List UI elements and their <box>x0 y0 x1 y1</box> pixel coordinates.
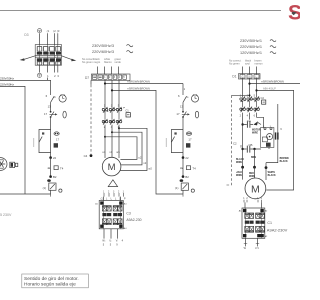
svg-text:A4: A4 <box>124 203 127 206</box>
terminal block D3 <box>35 33 61 72</box>
svg-text:BLACK: BLACK <box>280 160 288 163</box>
row 1 cells <box>102 206 122 211</box>
svg-text:230V/50Hz: 230V/50Hz <box>0 77 14 81</box>
svg-text:2: 2 <box>108 191 110 193</box>
svg-text:v2: v2 <box>143 161 146 165</box>
svg-text:(1): (1) <box>175 186 178 190</box>
svg-text:BLACK: BLACK <box>268 174 276 177</box>
row 3 cells <box>245 226 265 232</box>
svg-text:1: 1 <box>47 74 49 78</box>
PTC bars right of relay <box>275 132 277 139</box>
phase drops <box>243 113 250 167</box>
svg-text:1: 1 <box>103 191 105 193</box>
svg-text:22: 22 <box>53 156 57 160</box>
svg-text:B2: B2 <box>185 175 189 179</box>
svg-text:3: 3 <box>57 74 59 78</box>
svg-text:4: 4 <box>122 240 124 243</box>
wire colour labels above D1 <box>229 58 263 65</box>
svg-text:WIRE: WIRE <box>236 175 242 177</box>
motor terminal dots <box>241 166 244 169</box>
dashed linkage C2 (right) <box>226 94 250 185</box>
contact with actuator (to coil oval) <box>50 111 52 113</box>
svg-text:A4: A4 <box>124 227 127 230</box>
svg-text:2: 2 <box>246 198 248 200</box>
far-left motor stub (cut) <box>0 158 18 171</box>
wire colour labels above D7 <box>82 57 122 64</box>
svg-text:220V/60Hz: 220V/60Hz <box>0 83 14 87</box>
svg-text:T4: T4 <box>60 166 64 170</box>
supply line 1 <box>0 80 51 95</box>
svg-text:17: 17 <box>56 138 60 142</box>
row 1 <box>240 96 260 102</box>
svg-text:BLACK: BLACK <box>236 158 244 161</box>
svg-text:W: W <box>244 247 247 250</box>
plug ticks above connector C3 <box>101 191 126 200</box>
svg-text:M: M <box>108 162 116 173</box>
svg-text:1: 1 <box>104 105 106 108</box>
start relay box <box>261 128 274 148</box>
svg-text:C2: C2 <box>233 142 237 146</box>
row 2 cells dark <box>245 221 249 224</box>
svg-text:W:: W: <box>102 240 105 243</box>
supply line 2 <box>0 86 25 194</box>
row 3 cells <box>102 219 122 225</box>
row 2 overload <box>240 94 260 112</box>
arrow left from block <box>22 56 36 60</box>
svg-text:3: 3 <box>114 77 116 79</box>
leads into D7 from above <box>98 67 119 75</box>
parallel branch <box>171 130 183 144</box>
svg-text:+/BROWN/BROWN: +/BROWN/BROWN <box>127 80 150 84</box>
svg-text:A1: A1 <box>95 203 98 206</box>
svg-text:G: G <box>242 75 244 78</box>
svg-text:C1: C1 <box>267 221 272 225</box>
svg-text:4: 4 <box>119 77 121 79</box>
svg-text:1: 1 <box>240 94 242 97</box>
svg-text:5: 5 <box>110 244 112 247</box>
single-phase motor wiring with capacitors <box>236 104 289 180</box>
svg-text:+BLK: +BLK <box>236 172 242 174</box>
svg-text:A9A2-230V: A9A2-230V <box>267 227 288 232</box>
svg-text:5: 5 <box>103 244 105 247</box>
svg-text:marron: marron <box>254 62 263 66</box>
svg-text:T4: T4 <box>192 166 196 170</box>
svg-text:u2: u2 <box>138 155 141 159</box>
svg-text:(3: (3 <box>57 29 60 33</box>
svg-text:2: 2 <box>261 198 263 200</box>
svg-text:2: 2 <box>240 115 242 118</box>
svg-text:A2: A2 <box>265 209 268 212</box>
D3 top labels <box>37 29 59 34</box>
svg-text:CB: CB <box>248 143 252 147</box>
svg-text:120V/60Hz/1: 120V/60Hz/1 <box>240 51 262 55</box>
supply line labels <box>0 77 14 87</box>
timer contact T4 <box>48 166 64 171</box>
bottom return line <box>0 193 51 195</box>
svg-text:No green: No green <box>82 60 93 64</box>
svg-text:+/BROWN/BROWN: +/BROWN/BROWN <box>127 87 150 91</box>
svg-text:1: 1 <box>184 87 186 91</box>
svg-text:(1: (1 <box>47 29 50 33</box>
3-phase drops to motor + dual-voltage loops <box>102 125 152 171</box>
svg-text:M: M <box>251 183 260 195</box>
svg-text:3: 3 <box>113 191 115 193</box>
connector block C3 <box>95 197 141 247</box>
D3 bottom labels <box>37 73 59 78</box>
svg-text:2: 2 <box>118 191 120 193</box>
svg-text:D1: D1 <box>232 75 236 79</box>
leads below D7 <box>91 80 119 108</box>
voltage ratings (3-phase) <box>92 44 133 54</box>
thermal element right of line <box>54 132 60 148</box>
leads below <box>246 238 258 246</box>
svg-text:P: P <box>124 199 126 201</box>
svg-text:N: N <box>249 75 251 78</box>
bold wire note <box>252 129 261 134</box>
svg-text:U:: U: <box>109 240 112 243</box>
control column right x=183 <box>166 84 199 197</box>
svg-text:5: 5 <box>123 77 125 79</box>
row 2 overload contacts <box>102 119 122 125</box>
svg-text:MOTOR: MOTOR <box>252 129 261 131</box>
svg-text:verde: verde <box>114 60 121 64</box>
motor M left <box>102 157 121 176</box>
row 1 contacts <box>102 107 122 113</box>
svg-text:RED: RED <box>249 173 254 175</box>
connector block C1 <box>239 198 288 250</box>
row 2 cells dark <box>102 213 106 216</box>
svg-text:22: 22 <box>185 156 189 160</box>
svg-text:1: 1 <box>243 198 245 200</box>
voltage ratings (1-phase) <box>240 39 276 55</box>
contactor C2 contacts (right) <box>240 94 266 117</box>
top rule <box>0 10 281 12</box>
svg-text:6: 6 <box>254 115 256 118</box>
svg-text:17: 17 <box>44 112 48 116</box>
svg-text:220V/60Hz/1: 220V/60Hz/1 <box>240 45 262 49</box>
logo S red <box>288 2 302 25</box>
svg-text:17: 17 <box>188 138 192 142</box>
row 1 cells <box>245 213 265 218</box>
svg-text:Horario según salida eje: Horario según salida eje <box>24 282 76 288</box>
svg-text:BRN: BRN <box>251 157 256 159</box>
dashed link to C4 <box>90 85 92 155</box>
wire colour notes <box>236 157 289 178</box>
svg-text:C3: C3 <box>126 212 130 216</box>
svg-text:D3: D3 <box>24 33 28 37</box>
svg-text:m: m <box>180 166 183 170</box>
svg-text:C1: C1 <box>125 108 129 112</box>
svg-text:1: 1 <box>123 191 125 193</box>
svg-text:3: 3 <box>111 105 113 108</box>
svg-text:C4: C4 <box>84 154 88 158</box>
svg-text:6: 6 <box>46 94 48 98</box>
svg-text:No green: No green <box>229 62 240 66</box>
svg-text:m: m <box>186 95 189 99</box>
svg-text:5: 5 <box>254 94 256 97</box>
svg-text:azul: azul <box>245 62 250 66</box>
motor M right <box>245 178 266 199</box>
svg-text:2: 2 <box>54 74 56 78</box>
svg-text:220V/60Hz/3: 220V/60Hz/3 <box>92 50 114 54</box>
single phase take-off line B <box>112 90 183 194</box>
single phase take-off line A <box>105 83 183 85</box>
svg-text:1: 1 <box>104 77 106 79</box>
svg-text:17: 17 <box>176 112 180 116</box>
contactor C1 contacts (left, 3-phase) <box>102 105 130 129</box>
svg-text:m: m <box>48 166 51 170</box>
parallel branch with aux contact <box>39 130 51 144</box>
svg-text:B2: B2 <box>53 175 57 179</box>
delta symbol <box>108 180 117 187</box>
svg-text:(1): (1) <box>43 186 46 190</box>
coil/starter box with slash <box>47 179 51 182</box>
svg-text:WHITE: WHITE <box>268 172 276 174</box>
svg-text:w2: w2 <box>148 167 152 171</box>
svg-text:U V: U V <box>255 247 259 250</box>
feed line B' <box>257 90 294 190</box>
svg-text:C2: C2 <box>261 96 265 100</box>
svg-text:+/BROWN/BROWN: +/BROWN/BROWN <box>261 80 284 84</box>
svg-text:blanco: blanco <box>104 60 112 64</box>
svg-text:230V/50Hz/3: 230V/50Hz/3 <box>92 44 114 48</box>
svg-text:230V/50Hz/1: 230V/50Hz/1 <box>240 39 262 43</box>
svg-text:6: 6 <box>280 128 282 131</box>
svg-text:WIRE: WIRE <box>252 133 258 135</box>
svg-text:A9A2-230: A9A2-230 <box>126 218 141 222</box>
terminal strip D1 <box>232 67 300 191</box>
feed line A' <box>250 83 301 85</box>
svg-text:m: m <box>54 95 57 99</box>
svg-text:4: 4 <box>247 115 249 118</box>
svg-text:BROWN: BROWN <box>280 158 289 160</box>
svg-text:3: 3 <box>247 94 249 97</box>
svg-text:WIRE: WIRE <box>236 162 242 164</box>
note box bottom left <box>22 274 89 288</box>
switch S with clock (timer) <box>51 96 55 102</box>
svg-text:6: 6 <box>178 94 180 98</box>
leads below <box>104 229 118 239</box>
svg-text:(2: (2 <box>53 29 56 33</box>
svg-text:u1: u1 <box>102 150 105 154</box>
linkage to coil box <box>104 107 126 112</box>
svg-text:D7: D7 <box>85 76 89 80</box>
switch S with clock <box>183 96 187 102</box>
svg-text:A2: A2 <box>265 235 268 238</box>
svg-text:9: 9 <box>116 244 118 247</box>
svg-text:1,5 230V: 1,5 230V <box>0 213 12 217</box>
winding terminal labels <box>102 150 152 171</box>
arrow right from block <box>62 56 75 61</box>
svg-text:A9A-4S/LP: A9A-4S/LP <box>263 87 276 91</box>
svg-text:2: 2 <box>109 77 111 79</box>
svg-text:Sentido de giro del motor.: Sentido de giro del motor. <box>24 276 79 282</box>
small marker left bracket <box>33 138 35 147</box>
svg-text:5: 5 <box>118 105 120 108</box>
svg-text:v1: v1 <box>109 150 112 154</box>
loop taps <box>118 127 120 129</box>
svg-text:w1: w1 <box>116 150 120 154</box>
svg-text:negro: negro <box>94 60 101 64</box>
svg-text:V:: V: <box>116 240 119 243</box>
